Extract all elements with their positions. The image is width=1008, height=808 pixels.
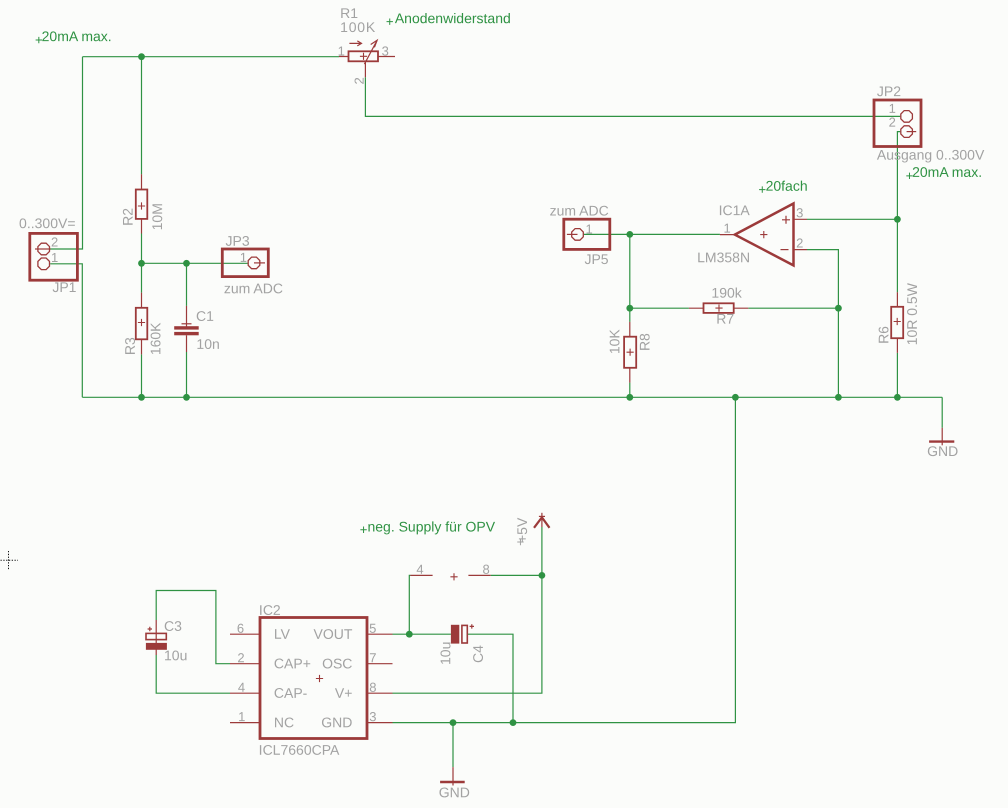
svg-text:10n: 10n (196, 336, 219, 352)
wire C3 top to IC2 CAP+ (156, 591, 230, 664)
svg-text:zum ADC: zum ADC (550, 203, 609, 219)
label +5V (514, 517, 530, 545)
svg-text:8: 8 (369, 680, 376, 695)
svg-text:10u: 10u (164, 647, 187, 663)
svg-text:JP1: JP1 (52, 279, 76, 295)
op-amp IC1 power pins (410, 573, 490, 580)
junction rail IC2 branch (732, 394, 739, 401)
connector JP5 (564, 219, 610, 249)
wire divider node to JP3 (142, 262, 248, 264)
label Anodenwiderstand (387, 10, 511, 26)
mouse crosshair cursor (1, 551, 19, 570)
wire C3 bottom to IC2 CAP- (156, 655, 230, 693)
capacitor C3 (146, 620, 167, 655)
junction rail inv branch (835, 394, 842, 401)
wire node down to R6 (896, 219, 898, 292)
junction ground line GND symbol (450, 719, 457, 726)
svg-text:JP3: JP3 (226, 233, 250, 249)
op-amp IC1A (720, 204, 807, 266)
svg-text:IC1A: IC1A (719, 202, 751, 218)
wire top rail net N300V (83, 56, 340, 58)
svg-text:100K: 100K (340, 19, 376, 35)
junction rail C1 (183, 394, 190, 401)
junction rail R6 (894, 394, 901, 401)
svg-text:R3: R3 (122, 337, 138, 355)
svg-text:CAP+: CAP+ (274, 655, 311, 671)
label 20mA max. right (906, 164, 982, 180)
junction node at C1 (183, 260, 190, 267)
junction ground line C4 (510, 719, 517, 726)
svg-text:GND: GND (927, 443, 958, 459)
wire R8 top segment (629, 308, 631, 322)
svg-text:R6: R6 (875, 326, 891, 344)
wire opamp pin2 to R7 node (807, 250, 838, 309)
svg-text:OSC: OSC (322, 655, 352, 671)
svg-text:7: 7 (369, 650, 376, 665)
resistor R3 (136, 293, 148, 355)
junction node opamp pin3 (894, 216, 901, 223)
label 20mA max. top left (36, 28, 112, 44)
svg-text:20fach: 20fach (766, 178, 808, 194)
svg-text:R7: R7 (716, 311, 734, 327)
wire IC1 power pin4 to VOUT net (409, 575, 410, 634)
svg-text:1: 1 (889, 101, 896, 116)
svg-text:1: 1 (586, 222, 593, 237)
wire C4 right to ground line (467, 634, 513, 722)
label neg. Supply fuer OPV (360, 518, 495, 534)
resistor R6 (891, 292, 903, 353)
svg-text:JP2: JP2 (877, 83, 901, 99)
wire R7 left segment (630, 307, 689, 309)
svg-text:0..300V=: 0..300V= (19, 215, 75, 231)
svg-text:3: 3 (796, 205, 803, 220)
svg-text:+5V: +5V (514, 517, 530, 543)
svg-text:LV: LV (274, 626, 291, 642)
svg-text:10M: 10M (149, 203, 165, 230)
svg-text:IC2: IC2 (259, 602, 281, 618)
svg-text:C1: C1 (196, 308, 214, 324)
resistor R7 (689, 303, 748, 313)
wire R2 top segment (141, 57, 143, 175)
svg-text:20mA max.: 20mA max. (912, 164, 982, 180)
potentiometer R1 (339, 40, 395, 77)
junction top rail at R2 (138, 53, 145, 60)
svg-text:1: 1 (240, 250, 247, 265)
wire C1 top segment (186, 263, 188, 306)
svg-text:1: 1 (724, 221, 731, 236)
svg-text:20mA max.: 20mA max. (42, 28, 112, 44)
resistor R2 (136, 174, 148, 233)
supply symbol +5V (534, 513, 550, 528)
capacitor C1 (174, 306, 199, 352)
wire R3 bottom segment (141, 354, 143, 397)
wire pot wiper to JP2 pin1 (365, 77, 900, 116)
svg-text:8: 8 (483, 562, 490, 577)
label 20fach (759, 178, 808, 194)
svg-text:zum ADC: zum ADC (224, 280, 283, 296)
svg-text:NC: NC (274, 714, 294, 730)
wire IC2 ground line (393, 397, 736, 722)
ground symbol GND bottom (440, 767, 465, 785)
capacitor C4 (451, 624, 474, 643)
svg-text:3: 3 (382, 43, 389, 58)
svg-text:ICL7660CPA: ICL7660CPA (259, 742, 340, 758)
svg-text:1: 1 (51, 250, 58, 265)
wire ground rail (82, 396, 942, 398)
wire +5V node to IC2 V+ (393, 575, 542, 693)
connector JP1 (30, 233, 78, 280)
svg-text:C4: C4 (470, 645, 486, 663)
svg-text:10u: 10u (437, 642, 453, 665)
svg-text:3: 3 (369, 709, 376, 724)
svg-text:190k: 190k (711, 285, 742, 301)
svg-text:160K: 160K (147, 322, 163, 355)
junction R7 left node (626, 305, 633, 312)
wire R7 node to rail (837, 308, 839, 397)
wire ground line to GND symbol (452, 723, 454, 768)
svg-text:Anodenwiderstand: Anodenwiderstand (395, 10, 511, 26)
svg-text:1: 1 (238, 709, 245, 724)
svg-text:2: 2 (237, 650, 244, 665)
svg-text:GND: GND (439, 784, 470, 800)
svg-text:2: 2 (51, 235, 58, 250)
svg-text:1: 1 (338, 43, 345, 58)
svg-text:R2: R2 (120, 208, 136, 226)
wire R2 bottom segment (141, 234, 143, 264)
wire JP2 pin2 down to node (897, 132, 900, 220)
svg-text:6: 6 (237, 621, 244, 636)
svg-text:5: 5 (369, 621, 376, 636)
wire opamp pin3 to node (807, 218, 897, 220)
wire R6 bottom to rail (896, 353, 898, 397)
junction rail R3 (138, 394, 145, 401)
wire R3 top segment (141, 263, 143, 292)
junction output node (626, 231, 633, 238)
svg-text:JP5: JP5 (584, 251, 608, 267)
wire rail to right GND (941, 397, 943, 428)
wire IC1 power pin8 to +5V node (491, 574, 542, 576)
svg-text:LM358N: LM358N (697, 249, 750, 265)
svg-text:2: 2 (352, 77, 367, 84)
svg-text:R8: R8 (637, 333, 653, 351)
svg-text:10K: 10K (606, 329, 622, 355)
wire JP5 to opamp pin1 (584, 233, 720, 235)
connector JP3 (222, 249, 268, 277)
wire C1 bottom segment (186, 352, 188, 397)
svg-text:C3: C3 (164, 618, 182, 634)
svg-text:CAP-: CAP- (274, 685, 308, 701)
junction rail R8 (626, 394, 633, 401)
connector JP2 (874, 100, 921, 147)
svg-text:VOUT: VOUT (314, 626, 353, 642)
wire R7 right segment (748, 307, 838, 309)
IC2 ICL7660CPA body (230, 618, 393, 739)
resistor R8 (624, 322, 636, 383)
wire output node riser (629, 234, 631, 308)
svg-text:10R 0.5W: 10R 0.5W (904, 282, 920, 345)
wire R8 bottom segment (629, 383, 631, 398)
svg-text:4: 4 (416, 562, 423, 577)
svg-text:4: 4 (238, 680, 245, 695)
wire JP1 pin1 to ground rail (50, 264, 82, 398)
svg-text:2: 2 (889, 115, 896, 130)
svg-text:2: 2 (796, 236, 803, 251)
wire JP1 pin2 riser (50, 57, 82, 249)
junction R7 right node (835, 305, 842, 312)
ground symbol GND right (929, 428, 954, 446)
junction node at R2/R3 (138, 260, 145, 267)
svg-text:Ausgang 0..300V: Ausgang 0..300V (877, 147, 985, 163)
svg-text:GND: GND (321, 714, 352, 730)
junction +5V node (539, 572, 546, 579)
svg-text:V+: V+ (335, 685, 353, 701)
wire IC2 VOUT to C4 (393, 633, 451, 635)
wire +5V arrow drop (541, 527, 543, 575)
svg-text:neg. Supply für OPV: neg. Supply für OPV (367, 518, 495, 534)
junction VOUT net (406, 631, 413, 638)
